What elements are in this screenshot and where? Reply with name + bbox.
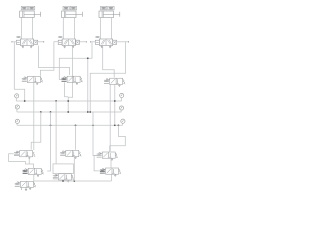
wire: cyl2 ports down to valve V2: [62, 18, 64, 40]
valve S9: [100, 168, 121, 177]
wire: bus B down to valve S7R left wire: [93, 112, 97, 156]
wire: V3 supply down to valve S6 top: [103, 46, 115, 78]
wire: V2 left pilot down to valve S4 top: [40, 42, 58, 76]
bus line C: [17, 124, 123, 126]
wire: S6 bottom right port down across buses: [114, 84, 116, 125]
junction bus C x118.4: [118, 124, 120, 126]
wire: bus A down to valve S10 loop: [55, 101, 57, 164]
wire: S7R bottom to S9 top: [110, 158, 112, 168]
valve U2 5/2: [58, 39, 79, 48]
junction bottom x74.3: [73, 180, 75, 182]
terminal circle left A: [15, 94, 19, 101]
wire: V2 right pilot stub (plugged): [79, 41, 86, 43]
junction bus B x68.2: [67, 111, 69, 113]
junction bus A x114.8: [114, 100, 116, 102]
label boxes 3B: [101, 6, 115, 10]
valve S10 3/2 with loop: [53, 164, 73, 174]
valve U3 5/2: [95, 39, 116, 48]
junction bus C x93: [92, 124, 94, 126]
junction on pilot line: [87, 57, 89, 59]
terminal circle right B: [119, 106, 123, 112]
terminal circle right C: [121, 119, 125, 125]
wire: S7L left port loop to S8 top: [9, 154, 34, 169]
junction bus B x50.5: [50, 111, 52, 113]
wire: branch from V3 left pilot down to bus B: [87, 58, 89, 112]
valve S11: [60, 150, 81, 159]
cylinder 3A: [99, 11, 120, 18]
wire: S7R left port to S9 left port: [94, 156, 100, 171]
wire: S4 bottom down to bottom valve row: [33, 83, 35, 150]
junction bus A x56.1: [55, 100, 57, 102]
wire: V1 left pilot line to bus A: [12, 41, 17, 43]
wire: bottom horizontal connecting row: [34, 180, 112, 182]
terminal circle left C: [15, 119, 19, 125]
cylinder 2A: [62, 11, 83, 18]
junction bus B x40.8: [40, 111, 42, 113]
wire: cyl1 right port down to valve V1: [32, 18, 34, 40]
wire: V1 supply down, over to valve S5 top: [38, 46, 69, 75]
valve S5 3/2: [62, 76, 83, 85]
bus line A: [16, 100, 121, 102]
valve S6 3/2: [104, 78, 125, 87]
wire: S7L bottom down: [28, 157, 30, 164]
valve S7R: [97, 152, 118, 161]
junction bus A x24.7: [24, 100, 26, 102]
wire: V1 right pilot stub (plugged): [38, 41, 44, 43]
wire: bus C jog down to valve S7R top: [110, 125, 126, 146]
exhaust below S12: [22, 188, 28, 191]
junction bus B x87.8: [87, 111, 89, 113]
valve S12: [15, 181, 36, 190]
wire: bus B jog down to valve S7L top: [31, 112, 41, 150]
terminal circle left B: [15, 105, 19, 112]
valve S4 3/2: [22, 76, 43, 85]
label boxes 2B: [63, 6, 77, 10]
label boxes 1B: [21, 6, 35, 10]
wire: cyl3 ports down to valve V3: [100, 18, 102, 40]
terminal circle right A: [120, 93, 124, 101]
cylinder 1A: [20, 11, 41, 18]
wire: S9 bottom down to bottom horizontal: [110, 174, 112, 181]
junction bus A x68.2: [67, 100, 69, 102]
junction bus C x114.8: [114, 124, 116, 126]
wire: V3 left pilot down-left to valve S5 left port: [91, 41, 96, 43]
junction bottom x63: [62, 180, 64, 182]
wire: S7R top port riser: [109, 146, 111, 152]
valve S7L: [14, 151, 35, 160]
wire: S6 bottom left port down to valve S7 top: [109, 84, 111, 151]
junction bus C x75.5: [75, 124, 77, 126]
wire: S11 bottom down to bottom horizontal: [73, 157, 75, 181]
wire: S8 bottom to S12 top: [33, 175, 35, 182]
wire: V3 right pilot down-left, to valve S6 top and bus B: [117, 41, 129, 43]
junction bus C x50.5: [50, 124, 52, 126]
bus line B: [17, 111, 122, 113]
wire: V2 supply down joining bus A: [68, 46, 72, 113]
junction bus B x90.2: [89, 111, 91, 113]
valve U1 5/2: [16, 39, 37, 48]
wire: bus C down to valve S11 top: [75, 125, 77, 150]
wire: S5 bottom to bus A jog: [65, 82, 69, 96]
valve S8: [23, 168, 44, 177]
wire: bus B down to valve S8 right side: [47, 112, 50, 171]
wire: cyl1 left port down to valve V1: [21, 18, 23, 40]
valve S10: [53, 174, 74, 183]
